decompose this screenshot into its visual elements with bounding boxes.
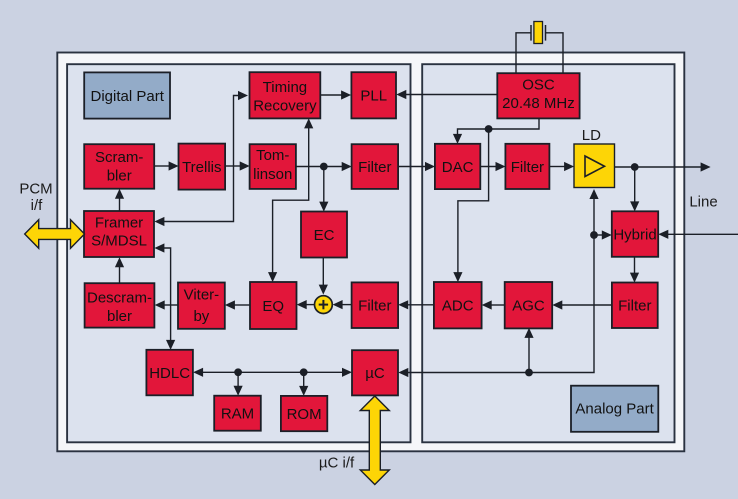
- svg-text:i/f: i/f: [31, 197, 44, 214]
- wire Scrambler to Trellis: [154, 161, 178, 170]
- node junction on line output wire: [631, 163, 639, 171]
- block OSC 20.48 MHz: [497, 73, 579, 118]
- block DAC: [435, 144, 480, 189]
- crystal Y1 wires: [516, 33, 563, 73]
- svg-text:ADC: ADC: [442, 298, 474, 315]
- svg-text:PLL: PLL: [360, 88, 387, 105]
- svg-text:µC i/f: µC i/f: [319, 455, 355, 472]
- svg-text:Recovery: Recovery: [253, 97, 317, 114]
- wire junction down to Hybrid: [630, 167, 639, 211]
- svg-text:Analog Part: Analog Part: [575, 400, 654, 417]
- block microcontroller uC: [352, 350, 398, 395]
- wire Viterby to Descrambler: [155, 300, 178, 309]
- block Descrambler: [85, 283, 155, 327]
- svg-text:bler: bler: [107, 308, 132, 325]
- node junction RAM tap: [234, 368, 242, 376]
- block EQ equalizer: [250, 282, 297, 329]
- wire microcontroller control bus to LD: [398, 189, 598, 377]
- adder node plus circle: [315, 296, 333, 314]
- svg-text:Framer: Framer: [95, 214, 143, 231]
- wire EQ to Viterby: [225, 300, 250, 309]
- block Scrambler: [84, 144, 154, 189]
- svg-text:OSC: OSC: [522, 77, 555, 94]
- wire Tomlinson to Filter with junction: [296, 162, 352, 171]
- wire junction down to ROM: [299, 372, 308, 396]
- block Filter receive digital: [352, 282, 399, 328]
- wire OSC to PLL: [396, 90, 497, 99]
- block PLL: [351, 72, 396, 118]
- svg-text:ROM: ROM: [287, 406, 322, 423]
- block HDLC: [146, 350, 193, 396]
- svg-text:Timing: Timing: [263, 79, 307, 96]
- microcontroller interface double arrow: [360, 396, 389, 485]
- wire Timing Recovery and Framer link: [154, 91, 248, 226]
- wire LD to Line output: [615, 162, 711, 171]
- svg-text:Tom-: Tom-: [256, 147, 289, 164]
- block Filter transmit analog: [505, 144, 549, 189]
- wire ADC to Filter digital 2: [398, 300, 434, 309]
- analog part inner box: [422, 64, 674, 442]
- wire clock junction to ADC: [453, 129, 488, 282]
- wire Timing Recovery tap to EQ: [268, 118, 313, 282]
- svg-text:HDLC: HDLC: [149, 365, 190, 382]
- block Filter transmit digital: [352, 144, 399, 189]
- block Hybrid: [612, 211, 658, 256]
- svg-text:S/MDSL: S/MDSL: [91, 233, 147, 250]
- crystal Y1: [531, 22, 546, 44]
- wire Filter digital 2 to adder: [333, 300, 352, 309]
- svg-text:LD: LD: [582, 127, 601, 144]
- svg-text:20.48 MHz: 20.48 MHz: [502, 95, 575, 112]
- svg-text:PCM: PCM: [19, 181, 52, 198]
- wire Line input to Hybrid: [658, 230, 738, 239]
- block Filter receive analog: [612, 283, 658, 329]
- wire DAC to Filter analog: [480, 162, 505, 171]
- wire Filter analog to LD: [550, 162, 575, 171]
- svg-text:Scram-: Scram-: [95, 149, 143, 166]
- block RAM: [214, 396, 261, 431]
- wire Hybrid to Filter analog 2: [630, 257, 639, 283]
- wire Descrambler to Framer: [115, 257, 124, 283]
- svg-text:Trellis: Trellis: [182, 159, 221, 176]
- block Viterby: [178, 283, 225, 329]
- label PCM i/f: [19, 181, 52, 215]
- svg-text:RAM: RAM: [221, 406, 254, 423]
- wire adder to EQ: [297, 300, 315, 309]
- wire junction to Hybrid: [594, 230, 612, 239]
- svg-text:Filter: Filter: [358, 298, 391, 315]
- svg-text:Hybrid: Hybrid: [613, 226, 656, 243]
- op-amp style laser driver LD: [574, 144, 615, 188]
- svg-text:Descram-: Descram-: [87, 290, 152, 307]
- svg-text:Filter: Filter: [358, 159, 391, 176]
- wire EC to adder: [319, 258, 328, 295]
- svg-text:linson: linson: [253, 166, 292, 183]
- block Trellis: [179, 144, 226, 190]
- block Framer S/MDSL: [84, 211, 154, 257]
- svg-text:Line: Line: [689, 194, 717, 211]
- svg-text:Digital Part: Digital Part: [91, 88, 165, 105]
- wire junction down to EC: [319, 167, 328, 212]
- wire Timing Recovery to PLL: [320, 90, 351, 99]
- outer chip boundary box: [57, 53, 684, 452]
- Analog Part label box: [571, 386, 658, 432]
- block Tomlinson: [250, 144, 296, 189]
- block EC echo canceller: [301, 212, 347, 258]
- svg-text:bler: bler: [107, 168, 132, 185]
- PCM interface double arrow: [25, 220, 85, 249]
- wire Trellis to Tomlinson: [225, 161, 250, 170]
- svg-text:Filter: Filter: [511, 159, 544, 176]
- node junction AGC control tap: [525, 369, 533, 377]
- block Timing Recovery: [250, 72, 321, 118]
- svg-text:µC: µC: [365, 365, 385, 382]
- svg-text:EQ: EQ: [262, 298, 284, 315]
- svg-text:Filter: Filter: [618, 298, 651, 315]
- node junction on Tomlinson-Filter wire: [320, 163, 328, 171]
- wire junction up to AGC: [524, 328, 533, 373]
- svg-text:EC: EC: [314, 227, 335, 244]
- wire HDLC to microcontroller bus: [193, 368, 352, 377]
- wire OSC clock to DAC: [453, 118, 539, 144]
- block ROM: [281, 396, 327, 431]
- wire Filter to DAC: [398, 162, 435, 171]
- digital part inner box: [67, 64, 410, 442]
- node junction Hybrid control tap: [590, 231, 598, 239]
- svg-text:by: by: [193, 308, 209, 325]
- svg-text:Viter-: Viter-: [184, 286, 220, 303]
- svg-text:AGC: AGC: [512, 298, 545, 315]
- node junction on clock wire: [485, 125, 493, 133]
- wire Framer to HDLC link: [154, 243, 175, 350]
- wire Framer to Scrambler: [115, 189, 124, 211]
- node junction ROM tap: [300, 368, 308, 376]
- Digital Part label box: [84, 72, 170, 118]
- block AGC: [505, 282, 553, 328]
- svg-text:DAC: DAC: [442, 159, 474, 176]
- wire AGC to ADC: [482, 300, 505, 309]
- wire Filter analog 2 to AGC: [552, 300, 612, 309]
- wire junction down to RAM: [234, 372, 243, 395]
- block ADC: [434, 282, 482, 328]
